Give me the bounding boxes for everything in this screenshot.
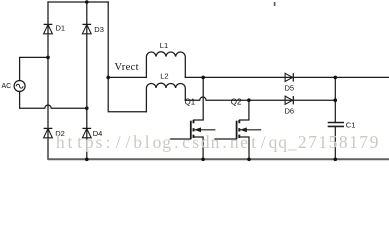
- diode D3: [82, 24, 91, 33]
- inductor L2: [146, 83, 185, 112]
- transistor Q1: [191, 120, 216, 139]
- wire bottom ground rail: [48, 158, 389, 160]
- diode D1: [44, 24, 53, 33]
- node AC bottom / right rail: [85, 106, 89, 110]
- wire Vrect rail and L2 feed: [108, 2, 146, 112]
- diode D2: [44, 128, 53, 137]
- svg-text:Q2: Q2: [231, 98, 242, 107]
- svg-text:AC: AC: [2, 83, 12, 90]
- node L2 out / Q2 drain: [247, 98, 251, 102]
- svg-text:L1: L1: [160, 41, 168, 50]
- diode D6: [285, 96, 293, 104]
- svg-text:L2: L2: [160, 72, 168, 81]
- wire Q2 drain rail: [240, 100, 249, 120]
- svg-text:https://blog.csdn.net/qq_27158: https://blog.csdn.net/qq_27158179: [56, 132, 379, 152]
- capacitor C1: [328, 123, 344, 127]
- wire left bridge rail: [47, 2, 49, 159]
- AC source V1: [14, 81, 25, 92]
- svg-text:C1: C1: [346, 121, 356, 130]
- node bottom rail / C1: [334, 158, 338, 162]
- svg-text:D3: D3: [94, 25, 104, 34]
- node bottom rail / Q1 source: [201, 158, 205, 162]
- node bottom rail / D4: [85, 158, 89, 162]
- node top bus / C1 rail: [334, 76, 338, 80]
- wire Q2 gate stub: [215, 138, 236, 140]
- svg-text:Q1: Q1: [185, 98, 196, 107]
- wire C1 rail bottom: [334, 127, 336, 159]
- artifact tick top: [274, 2, 276, 6]
- svg-text:D1: D1: [56, 24, 66, 33]
- wire Q1 gate stub: [170, 138, 190, 140]
- node bottom rail / Q2 source: [247, 158, 251, 162]
- wire Q2 source to bottom rail: [240, 137, 249, 159]
- wire Q1 source to bottom rail: [194, 137, 203, 159]
- wire C1 rail top: [334, 77, 336, 122]
- transistor Q2: [237, 120, 262, 139]
- svg-text:D6: D6: [285, 106, 295, 115]
- svg-text:D5: D5: [285, 83, 295, 92]
- diode D4: [82, 128, 91, 137]
- wire AC top lead: [20, 57, 48, 80]
- node L1 out / Q1 drain: [201, 76, 205, 80]
- wire L1 output bus to right edge: [185, 76, 389, 78]
- svg-text:Vrect: Vrect: [115, 62, 139, 73]
- wire Vrect to L1: [108, 76, 146, 78]
- wire right bridge rail: [86, 2, 88, 159]
- diode D5: [285, 73, 293, 81]
- wire L2 output with hop over Q1 drain rail: [185, 97, 335, 100]
- node top bus / D3 rail: [85, 0, 89, 4]
- wire AC bottom lead with hop over left rail: [20, 91, 87, 108]
- node AC top / left rail: [46, 56, 50, 60]
- inductor L1: [146, 52, 185, 78]
- wire Q1 drain rail: [194, 77, 203, 120]
- node Vrect: [106, 76, 110, 80]
- wire top bus: [48, 1, 108, 3]
- node D6 out / C1 rail: [334, 98, 338, 102]
